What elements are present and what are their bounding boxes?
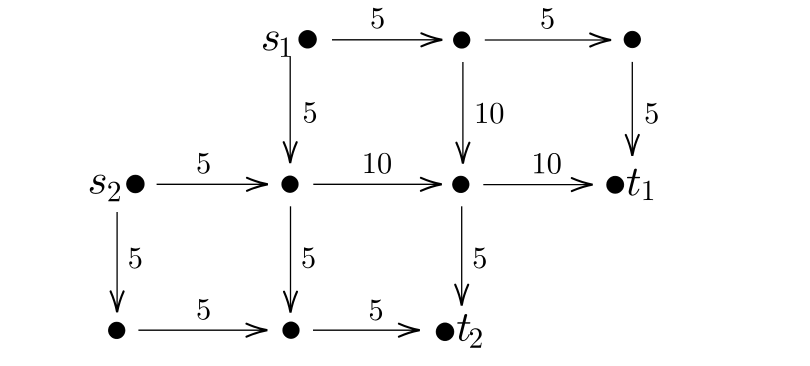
label 5 edge s2-C1: [129, 248, 141, 269]
wire edge s2-C1: [116, 212, 118, 312]
node label s1: [263, 31, 290, 57]
node s1 dot: [299, 30, 317, 48]
label 5 edge C2-t2: [370, 300, 382, 321]
label 5 edge B2-C2: [302, 247, 314, 268]
label 10 edge B2-B3: [364, 153, 390, 174]
node t2 dot: [436, 323, 454, 341]
node s2 dot: [126, 175, 144, 193]
node t1 dot: [607, 176, 624, 193]
label 5 edge C1-C2: [198, 299, 210, 320]
label 5 edge A3-t1: [646, 103, 658, 124]
wire edge B3-t2: [461, 206, 463, 305]
wire edge C2-t2: [313, 329, 420, 331]
node C2 dot: [283, 322, 300, 339]
wire edge B2-B3: [313, 183, 441, 185]
node label t1: [627, 169, 653, 201]
node C1 dot: [108, 322, 125, 339]
node A2 dot: [453, 32, 470, 49]
wire edge s1-B2: [289, 56, 291, 163]
label 5 edge A2-A3: [541, 8, 553, 29]
node A3 dot: [624, 31, 641, 48]
wire edge s2-B2: [157, 183, 268, 185]
wire edge B3-t1: [483, 184, 592, 186]
label 10 edge B3-t1: [534, 153, 560, 174]
label 5 edge B3-t2: [474, 248, 486, 269]
node label t2: [457, 314, 481, 348]
label 5 edge s1-A2: [372, 8, 384, 29]
wire edge C1-C2: [138, 329, 267, 331]
label 5 edge s1-B2: [304, 102, 316, 123]
label 5 edge s2-B2: [198, 153, 210, 174]
label 10 edge A2-B3: [477, 103, 503, 124]
node B3 dot: [452, 176, 469, 193]
node B2 dot: [282, 176, 299, 193]
wire edge s1-A2: [332, 39, 442, 41]
wire edge A2-B3: [462, 62, 464, 164]
wire edge A3-t1: [631, 62, 633, 156]
wire edge A2-A3: [485, 39, 611, 41]
node label s2: [90, 175, 120, 202]
wire edge B2-C2: [290, 206, 292, 312]
